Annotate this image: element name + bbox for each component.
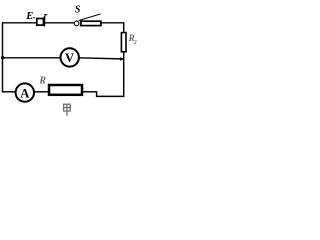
svg-text:A: A [20,86,29,100]
voltmeter V [60,48,78,66]
wire lower-right vertical stub [96,92,98,97]
wiper arrow [120,57,124,61]
caption jia (CJK glyph drawn as strokes) [64,104,71,116]
wire lower branch left [2,91,16,93]
switch contact bar [81,21,101,25]
wire V branch left [3,57,61,59]
battery E short plate [37,19,44,26]
wire left vertical [2,22,4,92]
switch pivot dot [74,21,79,26]
svg-text:S: S [75,4,81,15]
label E period [33,17,34,18]
svg-text:r: r [44,11,48,21]
switch lever [79,14,101,21]
resistor R box [49,85,82,95]
ammeter A [16,83,34,101]
junction dot V branch / left wire [1,56,4,59]
resistor R0 vertical bar [121,33,126,52]
wire lower-right horizontal [97,95,125,97]
wire V branch right [79,58,121,59]
svg-text:2: 2 [133,40,137,46]
svg-text:R: R [38,75,46,86]
wire battery to switch [45,22,74,24]
wire top-left segment [3,22,38,24]
wire right vertical upper [123,22,125,33]
wire switch to right corner [101,22,124,24]
wire R box to corner [83,91,97,93]
wire right vertical lower [123,52,125,97]
battery E long plate [44,16,46,26]
background [0,0,140,120]
wire A to R box [34,91,49,93]
svg-text:E: E [25,11,33,22]
svg-text:V: V [65,51,74,65]
